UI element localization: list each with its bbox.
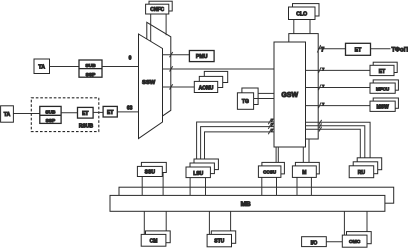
RU stack [357, 158, 382, 170]
wire SSW to PMU [163, 54, 190, 56]
svg-text:7: 7 [321, 46, 325, 53]
ET trunk box [346, 43, 371, 55]
ET exchange termination (inside RSUB) [78, 107, 94, 118]
CLO back box [293, 4, 320, 16]
svg-text:SUB: SUB [45, 110, 56, 116]
wire GSW to MFCU [306, 87, 371, 89]
MFCU stack [373, 80, 398, 90]
MSW stack [373, 98, 398, 108]
wire MB to STU [209, 211, 230, 234]
SSW front sheet [139, 34, 163, 139]
wire TA to SUB/SSP [50, 66, 80, 68]
svg-text:LSU: LSU [193, 171, 203, 177]
pedestal CLO to GSW [294, 20, 310, 34]
svg-text:MSW: MSW [376, 105, 389, 111]
wire M to MB [297, 177, 311, 195]
svg-text:OMC: OMC [349, 239, 361, 245]
bus GSW to RU line 3 [306, 129, 361, 166]
svg-text:SSP: SSP [86, 72, 97, 78]
TG tone generator stack [242, 88, 258, 105]
SSW back sheet [147, 22, 171, 127]
bus GSW to RU line 2 [306, 126, 365, 162]
wire CNFC to SSW front sheet [150, 14, 152, 42]
svg-text:TG: TG [242, 99, 249, 105]
wire GSW to CCSU [276, 147, 278, 166]
svg-text:M: M [302, 170, 306, 176]
svg-text:ET: ET [107, 110, 113, 116]
wire GSW to ET (PSTN trunk) [318, 48, 345, 50]
wire TA to remote SUB/SSP [13, 113, 39, 115]
bus LSU to GSW line 2 [201, 127, 274, 163]
MB back bar [119, 187, 394, 203]
bus GSW to RU line 1 [306, 122, 371, 158]
svg-text:SSW: SSW [142, 80, 156, 86]
I/O box [302, 237, 327, 247]
CLO front box [289, 7, 316, 20]
CM stack [146, 231, 171, 243]
wire ET to ET [93, 111, 103, 113]
wire ET to PSTN [371, 48, 391, 50]
svg-text:ТФоП: ТФоП [392, 48, 408, 54]
SSU stack [141, 162, 166, 172]
ET exchange termination (station side) [103, 106, 117, 117]
SUB/SSP unit (remote) [40, 106, 61, 123]
svg-text:SSU: SSU [145, 170, 156, 176]
svg-text:CNFC: CNFC [150, 7, 164, 13]
GSW front plane [274, 42, 306, 147]
svg-text:TA: TA [4, 112, 11, 118]
svg-text:PMU: PMU [196, 54, 208, 60]
svg-text:STU: STU [214, 239, 224, 245]
RSUB dashed enclosure [31, 98, 99, 132]
wire GSW to M [303, 139, 309, 166]
wire CCSU to MB [262, 177, 277, 195]
svg-text:ET: ET [82, 111, 88, 117]
svg-text:I/O: I/O [311, 240, 318, 246]
remote terminal TA (lower) [1, 106, 14, 122]
AONU stack [204, 71, 227, 82]
wire SSW to GSW [163, 68, 275, 70]
M marker stack [295, 162, 319, 174]
svg-text:CLO: CLO [296, 11, 307, 17]
wire TG front to GSW [254, 98, 274, 100]
svg-text:ET: ET [355, 47, 362, 53]
svg-text:63: 63 [127, 106, 133, 112]
GSW back plane [289, 34, 318, 139]
STU stack [211, 231, 235, 243]
svg-text:AONU: AONU [199, 85, 214, 91]
wire TG back to GSW [258, 92, 274, 94]
subscriber terminal TA (upper) [34, 59, 50, 74]
wire ET to SSW input 63 [117, 111, 138, 113]
svg-text:GSW: GSW [281, 92, 298, 99]
svg-text:CCSU: CCSU [263, 169, 277, 174]
svg-text:SUB: SUB [85, 63, 96, 69]
svg-text:SSP: SSP [46, 118, 56, 124]
bus LSU to GSW line 3 [205, 132, 275, 167]
wire CNFC to SSW back sheet [165, 14, 167, 35]
wire SUB/SSP to ET (remote) [61, 112, 77, 114]
PMU [189, 51, 214, 62]
CCSU stack [262, 162, 285, 174]
svg-text:MB: MB [241, 201, 251, 208]
wire I/O to OMC [326, 241, 342, 243]
svg-text:RSUB: RSUB [79, 123, 94, 129]
LSU stack [194, 159, 218, 170]
wire SSU to MB [142, 173, 163, 196]
SUB/SSP unit (upper) [79, 60, 102, 77]
svg-text:ET: ET [379, 69, 385, 75]
ET2 stack [373, 62, 397, 72]
wire MB to CM [144, 211, 166, 234]
CNFC back box [149, 1, 172, 11]
svg-text:0: 0 [129, 55, 132, 61]
wire MB to OMC [344, 211, 367, 235]
wire LSU to MB [190, 174, 205, 196]
MB front bar [110, 195, 385, 211]
svg-text:MFCU: MFCU [376, 87, 390, 92]
wire GSW to ET2 [306, 69, 371, 71]
OMC stack [347, 232, 372, 244]
wire SSW to AONU [163, 86, 195, 88]
svg-text:CM: CM [150, 238, 158, 244]
bus LSU to GSW line 1 [197, 122, 274, 159]
wire SUB/SSP to SSW input 0 [102, 66, 139, 68]
wire GSW to MSW [306, 105, 371, 107]
svg-text:RU: RU [358, 170, 366, 176]
CNFC front box [146, 4, 169, 14]
svg-text:TA: TA [38, 64, 45, 70]
